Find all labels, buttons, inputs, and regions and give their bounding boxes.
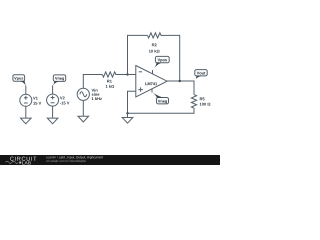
wire R5 bottom to ground node [128,108,195,113]
CircuitLab logo [10,157,36,161]
label V1 15V [33,97,41,105]
wire Vin bottom to ground [82,100,84,116]
node junction (feedback to output) [179,80,181,82]
voltage source V2 [47,85,59,118]
voltage source V1 [20,86,32,119]
resistor R2 [148,33,162,38]
label R2 10kohm [149,43,160,52]
node junction (ground net) [126,112,128,114]
watermark bar [0,155,220,165]
ground (middle) [122,113,133,123]
wire op-amp non-inverting input down to ground node [128,91,136,113]
node flag Vneg (V2) [53,75,66,86]
resistor R1 [102,72,127,77]
sine source Vin [77,88,89,100]
attribution text [46,156,58,158]
label V2 -15V [60,97,70,105]
ground (V1) [21,118,32,124]
label R5 100ohm [200,98,211,106]
wire feedback loop left+top [128,35,148,74]
op-amp U1 LM741 [136,66,167,98]
label Vin sine 1kHz [92,89,102,100]
node flag Vneg (op-amp V- pin) [152,89,169,104]
node flag Vout [194,70,207,81]
label R1 1kohm [106,80,114,88]
wire op-amp inverting input [128,74,136,76]
ground (Vin) [78,116,89,122]
ground (V2) [47,118,58,124]
wire op-amp output [167,81,194,95]
node A junction (inverting input) [126,73,128,75]
node flag Vpos (op-amp V+ pin) [152,56,169,74]
wire feedback top right vertical [161,35,180,81]
wire Vin top to R1 [83,75,102,89]
node flag Vpos (V1) [13,75,26,86]
resistor R5 [191,95,196,109]
